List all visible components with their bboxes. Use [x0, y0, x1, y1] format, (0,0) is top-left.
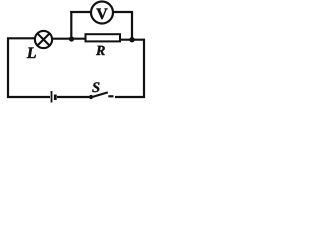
wire voltmeter branch top-right horizontal: [113, 11, 133, 13]
label L: [27, 48, 36, 59]
label R: [96, 46, 105, 55]
wire battery to corner: [7, 96, 50, 98]
wire right vertical: [143, 39, 145, 98]
battery negative plate: [54, 95, 57, 101]
label V: [96, 9, 107, 20]
lamp L: [35, 31, 52, 48]
label S: [92, 82, 99, 92]
wire resistor to corner: [120, 39, 145, 41]
wire voltmeter branch right vertical: [131, 11, 133, 40]
node junction left: [69, 36, 74, 41]
switch S fixed contact: [108, 95, 113, 97]
wire top-left horizontal: [7, 37, 35, 39]
voltmeter U1: [91, 2, 113, 24]
battery positive plate: [51, 91, 53, 103]
wire voltmeter branch top-left horizontal: [70, 11, 91, 13]
wire lamp to resistor: [52, 38, 86, 40]
switch S blade: [91, 92, 108, 97]
wire switch to battery: [57, 96, 89, 98]
wire left vertical: [7, 38, 9, 99]
resistor R: [86, 34, 121, 41]
wire bottom-right horizontal: [115, 96, 145, 98]
node junction right: [129, 37, 134, 42]
wire voltmeter branch left vertical: [70, 11, 72, 39]
switch S pivot: [89, 95, 93, 99]
